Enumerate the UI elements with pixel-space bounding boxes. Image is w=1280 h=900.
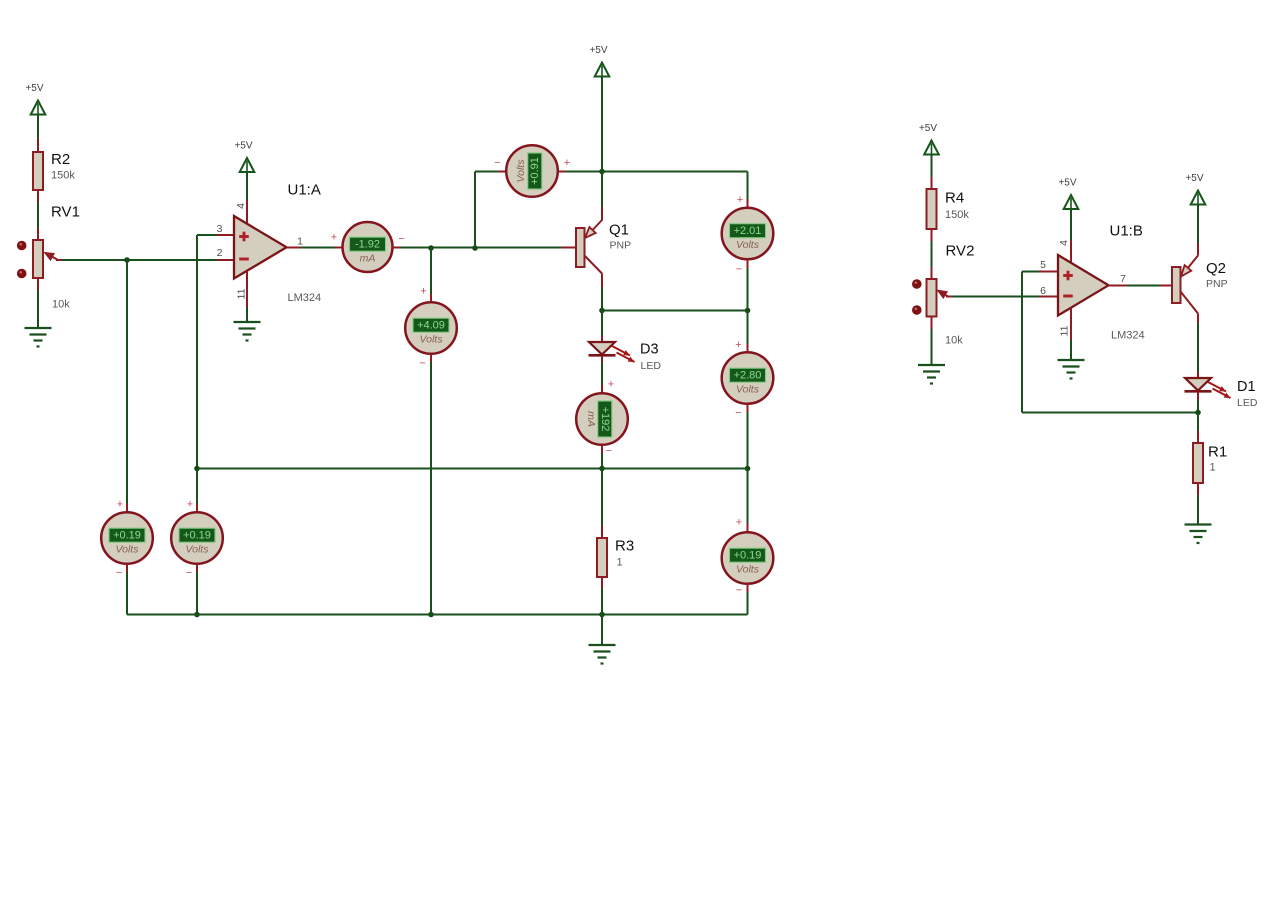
- svg-text:+: +: [331, 232, 337, 244]
- svg-text:LED: LED: [1237, 397, 1258, 409]
- svg-text:LM324: LM324: [288, 292, 322, 304]
- svg-text:−: −: [419, 358, 425, 370]
- svg-text:+5V: +5V: [589, 45, 607, 56]
- svg-text:Volts: Volts: [420, 333, 444, 345]
- svg-text:150k: 150k: [945, 209, 969, 221]
- svg-text:2: 2: [217, 247, 223, 259]
- svg-text:Volts: Volts: [736, 383, 760, 395]
- svg-text:7: 7: [1120, 273, 1126, 285]
- svg-text:+0.19: +0.19: [734, 549, 762, 561]
- svg-text:+5V: +5V: [234, 141, 252, 152]
- svg-text:+2.01: +2.01: [734, 225, 762, 237]
- svg-text:+4.09: +4.09: [417, 319, 445, 331]
- svg-text:4: 4: [235, 203, 247, 209]
- svg-text:−: −: [735, 407, 741, 419]
- svg-text:+: +: [187, 499, 193, 511]
- svg-text:-1.92: -1.92: [355, 238, 380, 250]
- svg-text:+: +: [735, 339, 741, 351]
- svg-text:+5V: +5V: [25, 83, 43, 94]
- svg-text:+0.19: +0.19: [113, 529, 141, 541]
- svg-text:Volts: Volts: [736, 563, 760, 575]
- svg-text:Volts: Volts: [186, 543, 210, 555]
- svg-text:11: 11: [1059, 325, 1071, 336]
- svg-text:3: 3: [217, 223, 223, 235]
- svg-text:4: 4: [1058, 240, 1070, 246]
- svg-text:1: 1: [297, 236, 303, 248]
- svg-text:Q2: Q2: [1206, 260, 1226, 277]
- svg-text:−: −: [116, 567, 122, 579]
- svg-text:R1: R1: [1208, 444, 1227, 461]
- svg-text:+: +: [420, 286, 426, 298]
- svg-text:+5V: +5V: [1058, 178, 1076, 189]
- svg-text:−: −: [736, 585, 742, 597]
- svg-text:10k: 10k: [52, 299, 70, 311]
- svg-text:+: +: [564, 157, 570, 169]
- svg-text:6: 6: [1040, 285, 1046, 297]
- svg-text:−: −: [398, 233, 404, 245]
- svg-text:−: −: [186, 567, 192, 579]
- svg-text:R2: R2: [51, 151, 70, 168]
- svg-text:+2.80: +2.80: [734, 369, 762, 381]
- svg-text:+0.19: +0.19: [183, 529, 211, 541]
- svg-text:+: +: [608, 379, 614, 391]
- svg-text:R4: R4: [945, 190, 964, 207]
- svg-text:+0.91: +0.91: [529, 157, 541, 185]
- svg-text:RV1: RV1: [51, 204, 80, 221]
- svg-text:Q1: Q1: [609, 222, 629, 239]
- svg-text:10k: 10k: [945, 335, 963, 347]
- svg-text:1: 1: [617, 557, 623, 569]
- svg-text:−: −: [736, 264, 742, 276]
- svg-text:−: −: [494, 157, 500, 169]
- svg-text:D1: D1: [1237, 379, 1256, 395]
- svg-text:LED: LED: [641, 360, 662, 372]
- svg-text:150k: 150k: [51, 170, 75, 182]
- svg-text:mA: mA: [585, 411, 597, 427]
- svg-text:D3: D3: [640, 342, 659, 358]
- svg-text:5: 5: [1040, 259, 1046, 271]
- svg-text:11: 11: [236, 288, 248, 299]
- svg-text:+: +: [736, 517, 742, 529]
- svg-text:−: −: [606, 445, 612, 457]
- svg-text:1: 1: [1210, 462, 1216, 474]
- svg-text:mA: mA: [360, 252, 376, 264]
- svg-text:+5V: +5V: [1185, 173, 1203, 184]
- svg-text:U1:A: U1:A: [288, 182, 321, 199]
- svg-text:+5V: +5V: [919, 123, 937, 134]
- svg-text:LM324: LM324: [1111, 330, 1145, 342]
- svg-text:U1:B: U1:B: [1110, 223, 1143, 240]
- svg-text:PNP: PNP: [610, 240, 632, 252]
- svg-text:R3: R3: [615, 538, 634, 555]
- svg-text:+: +: [737, 194, 743, 206]
- svg-text:+192: +192: [599, 407, 611, 432]
- svg-text:Volts: Volts: [515, 159, 527, 183]
- svg-text:Volts: Volts: [736, 239, 760, 251]
- svg-text:RV2: RV2: [946, 243, 975, 260]
- svg-text:PNP: PNP: [1206, 278, 1228, 290]
- svg-text:Volts: Volts: [116, 543, 140, 555]
- svg-text:+: +: [117, 499, 123, 511]
